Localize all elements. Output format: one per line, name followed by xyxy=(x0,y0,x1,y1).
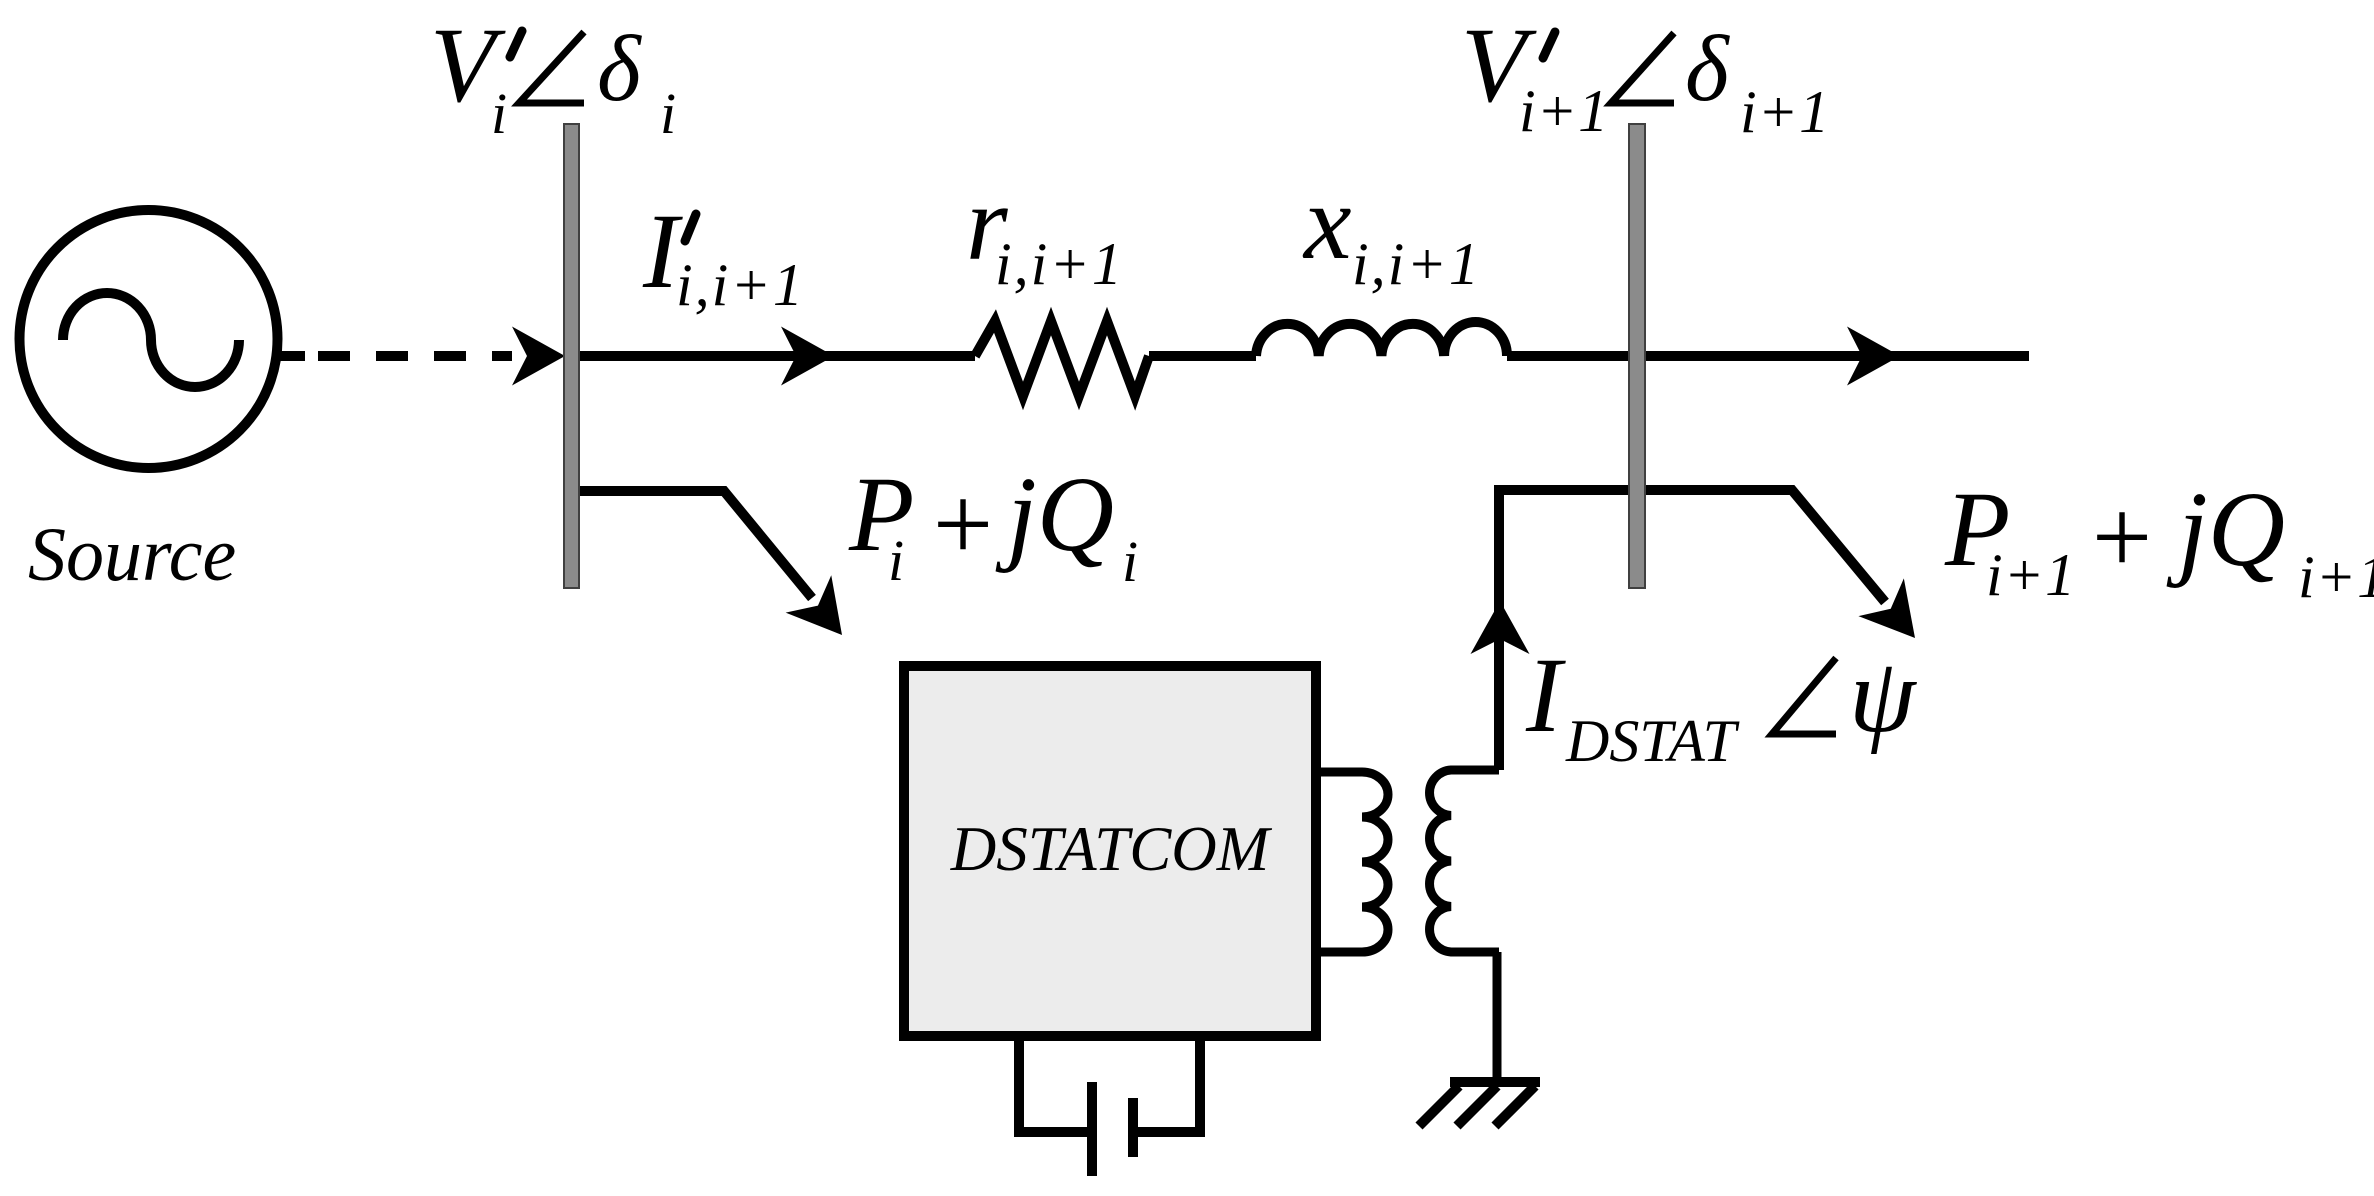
svg-text:Source: Source xyxy=(28,513,236,597)
svg-text:jQ: jQ xyxy=(995,456,1114,574)
svg-text:+: + xyxy=(926,466,998,584)
label I_DSTAT angle psi xyxy=(1525,637,1917,774)
ground symbol xyxy=(1419,1082,1540,1126)
svg-text:x: x xyxy=(1302,164,1352,282)
load branch wire at bus i xyxy=(566,491,812,598)
wire dashed feeder from source to bus i xyxy=(318,351,512,361)
load arrowhead Pi xyxy=(786,575,865,653)
svg-text:i: i xyxy=(888,528,904,593)
bus i bar xyxy=(564,124,579,588)
svg-text:δ: δ xyxy=(1685,17,1730,121)
svg-text:i,i+1: i,i+1 xyxy=(1352,231,1481,297)
arrowhead output feeder xyxy=(1847,327,1900,386)
transformer primary winding xyxy=(1313,772,1388,952)
load arrowhead Pi+1 xyxy=(1858,578,1937,656)
inductor x_i,i+1 xyxy=(1256,322,1507,356)
svg-text:+: + xyxy=(2085,479,2157,597)
capacitor plate right xyxy=(1128,1098,1138,1157)
label V'i angle delta i xyxy=(430,7,676,146)
angle symbol of V'i+1 xyxy=(1611,33,1674,103)
svg-text:jQ: jQ xyxy=(2166,471,2285,589)
angle symbol of V'i xyxy=(519,32,584,103)
label Pi+jQi xyxy=(848,456,1138,594)
AC source circle G1 xyxy=(20,210,278,468)
svg-text:i+1: i+1 xyxy=(1519,78,1609,144)
svg-text:i: i xyxy=(660,81,676,146)
svg-text:DSTATCOM: DSTATCOM xyxy=(950,814,1273,884)
svg-text:i: i xyxy=(1122,529,1138,594)
arrowhead current I'i,i+1 xyxy=(781,327,834,386)
label V'i+1 angle delta i+1 xyxy=(1461,7,1830,145)
svg-text:i+1: i+1 xyxy=(1986,542,2076,608)
transformer secondary winding xyxy=(1430,770,1499,952)
wire inductor through bus i+1 to output xyxy=(1507,351,2029,361)
svg-text:I: I xyxy=(1525,637,1566,755)
wire stub from source xyxy=(277,351,305,361)
AC source sine wave xyxy=(63,293,239,387)
wire bus i to resistor xyxy=(579,351,975,361)
bus i+1 bar xyxy=(1629,124,1645,588)
svg-text:i: i xyxy=(491,81,507,146)
DC link right wire xyxy=(1138,1036,1200,1132)
svg-text:i+1: i+1 xyxy=(1740,79,1830,145)
label r_i,i+1 xyxy=(966,165,1124,297)
DC link left wire xyxy=(1019,1036,1087,1132)
load branch wire at bus i+1 xyxy=(1499,490,1885,770)
svg-text:DSTAT: DSTAT xyxy=(1565,708,1740,774)
label Pi+1+jQi+1 xyxy=(1944,471,2374,610)
arrowhead into bus i xyxy=(512,327,565,386)
capacitor plate left xyxy=(1087,1082,1097,1176)
angle symbol of I_DSTAT xyxy=(1772,658,1836,734)
wire resistor to inductor xyxy=(1149,351,1256,361)
DSTATCOM box xyxy=(904,666,1316,1036)
svg-text:ψ: ψ xyxy=(1849,637,1917,755)
svg-text:δ: δ xyxy=(597,17,642,121)
label I'i,i+1 xyxy=(642,193,805,318)
svg-text:i+1: i+1 xyxy=(2298,544,2374,610)
wire secondary to ground xyxy=(1493,952,1502,1082)
label x_i,i+1 xyxy=(1302,164,1481,297)
svg-text:P: P xyxy=(848,456,914,574)
resistor r_i,i+1 xyxy=(975,321,1149,396)
arrowhead I_DSTAT up xyxy=(1471,601,1530,654)
svg-text:i,i+1: i,i+1 xyxy=(676,252,805,318)
svg-text:i,i+1: i,i+1 xyxy=(995,231,1124,297)
